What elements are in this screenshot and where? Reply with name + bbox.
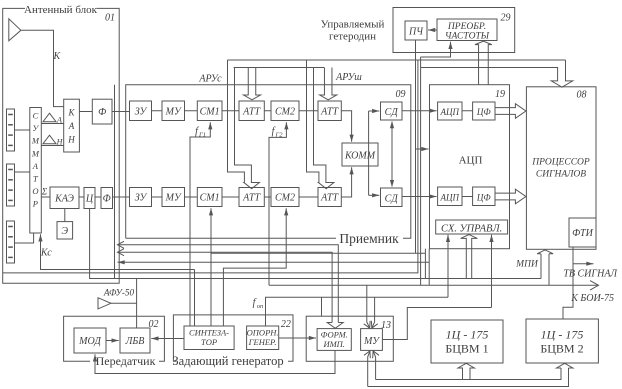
SD1 box (СД) row1 xyxy=(381,102,403,120)
svg-text:КАЭ: КАЭ xyxy=(54,194,74,205)
FORM IMP box (ФОРМ. ИМП.) xyxy=(317,329,351,351)
svg-text:СД: СД xyxy=(385,194,399,205)
svg-text:СМ1: СМ1 xyxy=(200,107,220,118)
wire ADC2-CF2 xyxy=(462,196,473,198)
SM1 box (СМ1) row1 xyxy=(197,101,222,121)
bottom data bus double line xyxy=(376,368,561,380)
svg-text:АЦП: АЦП xyxy=(440,107,460,117)
hollow arrow bus into BCVM1 xyxy=(458,363,474,379)
hollow arrow CF2 to processor xyxy=(495,189,526,204)
SM1 box (СМ1) row2 xyxy=(197,188,222,207)
svg-text:АРУс: АРУс xyxy=(198,74,222,85)
svg-text:ПЧ: ПЧ xyxy=(408,27,424,38)
MU13 box (МУ) xyxy=(361,329,383,351)
svg-text:СД: СД xyxy=(385,107,399,118)
wire KAE to C xyxy=(79,196,84,198)
antenna array element 3 xyxy=(7,221,15,263)
svg-text:Э: Э xyxy=(62,226,69,237)
wire element 3 to summator xyxy=(15,233,34,243)
ARUsh bus line L2 (АРУш segment) xyxy=(234,67,325,69)
KAN box (КАН) xyxy=(64,99,80,152)
wire FORM IMP to MOD xyxy=(95,350,335,373)
wire element 1 to summator xyxy=(15,129,30,131)
svg-text:КОММ: КОММ xyxy=(344,151,376,162)
svg-text:К: К xyxy=(68,108,76,118)
wire up into converter from stub xyxy=(421,42,451,57)
CF2 box (ЦФ) row2 xyxy=(473,187,495,206)
antenna array element 2 xyxy=(7,164,15,206)
master oscillator enclosure box 22 (Задающий генератор) xyxy=(173,315,293,361)
wire down to LBV with AFU tap xyxy=(136,279,138,329)
Ks wire down to synthesizer xyxy=(194,270,196,327)
hollow AGC elbow into ATT2 row2 xyxy=(307,60,334,189)
wire synth to LBV xyxy=(151,338,184,340)
transmitter enclosure box 02 (Передатчик) xyxy=(64,316,165,361)
wire MU1-SM1 xyxy=(185,110,198,112)
svg-text:гетеродин: гетеродин xyxy=(329,31,376,43)
filter F1 box (Ф) xyxy=(92,99,112,124)
arrow into control unit left xyxy=(447,235,449,297)
svg-text:ЗУ: ЗУ xyxy=(135,193,148,204)
hollow arrow up into converter xyxy=(475,41,492,84)
SM2 box (СМ2) row2 xyxy=(271,188,299,207)
svg-text:А: А xyxy=(32,161,39,171)
svg-text:ТВ СИГНАЛ: ТВ СИГНАЛ xyxy=(563,269,618,280)
svg-text:Г2: Г2 xyxy=(275,132,284,139)
control drop line inside antenna unit xyxy=(114,85,116,279)
svg-text:АТТ: АТТ xyxy=(320,193,339,204)
svg-text:Задающий генератор: Задающий генератор xyxy=(172,354,283,368)
hollow arrow CF1 to processor xyxy=(495,104,526,119)
svg-text:К БОИ-75: К БОИ-75 xyxy=(570,293,614,304)
svg-text:ТОР: ТОР xyxy=(201,337,217,347)
MU2 box (МУ) xyxy=(162,188,185,207)
svg-text:МОД: МОД xyxy=(78,336,101,347)
svg-text:Σ: Σ xyxy=(41,187,48,197)
signal processor box 08 (ПРОЦЕССОР СИГНАЛОВ) xyxy=(526,87,596,250)
ATT2 box (АТТ) row2 xyxy=(318,188,341,207)
svg-text:ИМП.: ИМП. xyxy=(322,339,344,349)
arrow converter to PCh xyxy=(428,29,437,31)
wire SM2-ATT2 row1 xyxy=(299,110,318,112)
wire antenna feed to KAN (К line) xyxy=(21,30,64,106)
control line A to antenna box xyxy=(3,60,418,273)
svg-text:БЦВМ 1: БЦВМ 1 xyxy=(445,342,488,356)
hollow pair bus into antenna box and FORM IMP xyxy=(118,241,125,248)
hollow AGC arrow into ATT2 row1 xyxy=(320,68,337,100)
wire ADC1-CF1 xyxy=(462,110,473,112)
wire from fop line down to unit 13 xyxy=(321,297,323,316)
arrow into MU13 top right xyxy=(372,297,375,328)
svg-text:СМ2: СМ2 xyxy=(275,193,295,204)
antenna array element 1 xyxy=(7,109,15,151)
bracket feed to SD1/SD2 xyxy=(369,110,380,112)
wire F2 to ZU2 xyxy=(113,196,130,198)
SD2 box (СД) row2 xyxy=(381,188,403,207)
MOD box (МОД) xyxy=(74,328,106,353)
wire ATT2 row1 to KOMM xyxy=(341,111,351,142)
svg-text:Ц: Ц xyxy=(85,194,94,205)
svg-text:ЦФ: ЦФ xyxy=(476,193,491,203)
summator box (СУММАТОР) xyxy=(30,108,42,234)
PCh box (ПЧ) xyxy=(405,21,427,40)
svg-text:Н: Н xyxy=(67,135,75,145)
long line K BOI-75 with arrow (К БОИ-75) xyxy=(269,284,599,286)
ADC unit box 19 xyxy=(430,85,510,249)
svg-text:А: А xyxy=(68,121,75,131)
hollow arrow into control unit xyxy=(461,235,478,279)
LBV box (ЛБВ) xyxy=(120,328,150,353)
svg-text:С: С xyxy=(33,111,39,121)
wire SM2b-ATT2b xyxy=(299,196,318,198)
KAE box (КАЭ) xyxy=(50,187,79,209)
filter F2 box (Ф) xyxy=(101,188,113,209)
svg-text:ОПОРН.: ОПОРН. xyxy=(247,328,279,338)
svg-text:АТТ: АТТ xyxy=(242,193,261,204)
hollow AGC arrow into ATT1 row1 xyxy=(244,68,261,100)
svg-text:АЦП: АЦП xyxy=(440,193,460,203)
svg-text:Ф: Ф xyxy=(103,194,111,205)
svg-text:ЧАСТОТЫ: ЧАСТОТЫ xyxy=(445,32,490,42)
box 29 enclosure xyxy=(393,8,515,53)
long line at 253.3 xyxy=(211,252,425,254)
wire sum to KAN (lower) xyxy=(41,145,63,147)
svg-text:Г1: Г1 xyxy=(198,132,206,139)
CF1 box (ЦФ) row1 xyxy=(473,102,495,120)
wire E to KAE xyxy=(64,209,66,222)
reference generator box (ОПОРН. ГЕНЕР.) xyxy=(247,326,279,350)
svg-text:Приемник: Приемник xyxy=(339,231,399,246)
wire C to filter F2 xyxy=(95,196,101,198)
FTI box (ФТИ) xyxy=(569,218,596,247)
ADC1 box (АЦП) row1 xyxy=(438,102,462,120)
svg-text:Кс: Кс xyxy=(40,248,52,259)
svg-text:ЛБВ: ЛБВ xyxy=(125,336,145,347)
svg-text:МУ: МУ xyxy=(165,193,182,204)
wire MU13 output to control unit right arrow xyxy=(382,308,491,340)
Ks feedback wire (Кс) from synthesizer to summator xyxy=(41,234,195,269)
svg-text:СМ2: СМ2 xyxy=(275,107,295,118)
control unit box (СХ. УПРАВЛ.) xyxy=(436,220,508,234)
arrows into MU13 bottom xyxy=(368,351,370,387)
control line B down to BOI line xyxy=(420,57,422,285)
ZU2 box (ЗУ) xyxy=(130,188,152,207)
antenna unit enclosure box 01 (Антенный блок) xyxy=(3,8,120,283)
svg-text:08: 08 xyxy=(577,90,587,101)
wire SD1 to ADC1 xyxy=(402,110,437,112)
BCVM1 box (1Ц - 175 БЦВМ 1) xyxy=(431,320,503,363)
ATT1 box (АТТ) row2 xyxy=(239,188,264,207)
fG1 wire to SM1 row1 (label f_Г1) xyxy=(190,122,210,326)
fG1 wire to SM1 row2 xyxy=(210,208,212,326)
hollow AGC elbow into ATT1 row2 xyxy=(228,60,260,189)
svg-text:Антенный блок: Антенный блок xyxy=(24,4,98,16)
f_op wire (fоп) to control unit xyxy=(266,297,449,326)
BCVM2 box (1Ц - 175 БЦВМ 2) xyxy=(526,319,598,363)
svg-text:ПРЕОБР.: ПРЕОБР. xyxy=(447,22,486,32)
frequency converter box (ПРЕОБР. ЧАСТОТЫ) xyxy=(437,19,497,41)
wire FTI down to BCVM2 xyxy=(563,247,573,319)
svg-text:29: 29 xyxy=(501,13,511,24)
wire MOD to LBV xyxy=(106,340,119,342)
ZU1 box (ЗУ) xyxy=(130,101,152,121)
svg-text:ФТИ: ФТИ xyxy=(572,228,593,239)
svg-text:Ф: Ф xyxy=(98,107,106,118)
svg-text:АРУш: АРУш xyxy=(335,72,362,83)
AFU-50 antenna symbol (АФУ-50) xyxy=(98,298,111,309)
arrow into MU13 top left xyxy=(367,285,370,328)
wire SM1b-ATT1b xyxy=(222,196,239,198)
wire MU2-SM1b xyxy=(185,196,198,198)
svg-text:М: М xyxy=(31,148,40,158)
wire PCh down to distribution line xyxy=(415,40,417,253)
arrow into antenna box (solid) xyxy=(118,261,430,263)
unit 13 enclosure box xyxy=(306,316,393,361)
wire SM1-ATT1 row1 xyxy=(222,110,239,112)
wire ZU2-MU2 xyxy=(152,196,163,198)
double arrow between SD boxes xyxy=(391,122,393,187)
wire KAN to filter F1 xyxy=(79,111,92,113)
svg-text:ЗУ: ЗУ xyxy=(135,107,148,118)
wire sum to KAN (upper) xyxy=(41,123,63,125)
fG2 wire to SM2 row1 (label f_Г2) xyxy=(269,122,286,285)
antenna horn (feed) symbol xyxy=(9,19,21,41)
wire F1 to ZU1 xyxy=(112,111,130,113)
arrow branch into ADC box 19 xyxy=(416,148,429,150)
wire ATT1b-SM2b xyxy=(264,196,271,198)
svg-text:1Ц - 175: 1Ц - 175 xyxy=(446,328,489,342)
MU1 box (МУ) xyxy=(162,101,185,121)
wire ATT2 row2 to KOMM xyxy=(341,167,351,197)
long line C-output to MPI riser xyxy=(90,209,541,279)
fG2 wire to SM2 row2 xyxy=(223,208,286,326)
svg-text:Управляемый: Управляемый xyxy=(321,19,385,31)
svg-text:АЦП: АЦП xyxy=(459,155,483,167)
svg-text:О: О xyxy=(32,186,38,196)
svg-text:01: 01 xyxy=(105,13,115,24)
wire SD2 to ADC2 xyxy=(402,196,437,198)
svg-text:АТТ: АТТ xyxy=(320,107,339,118)
svg-text:СИГНАЛОВ: СИГНАЛОВ xyxy=(536,170,586,180)
delta-N output symbol xyxy=(43,135,56,144)
svg-text:ПРОЦЕССОР: ПРОЦЕССОР xyxy=(531,158,590,168)
ARUs bus top line L1 xyxy=(228,59,566,61)
svg-text:Р: Р xyxy=(32,199,38,209)
svg-text:СИНТЕЗА-: СИНТЕЗА- xyxy=(189,328,229,338)
MPI bus (МПИ) from ADC to processor xyxy=(424,249,426,279)
svg-text:ГЕНЕР.: ГЕНЕР. xyxy=(248,337,277,347)
SM2 box (СМ2) row1 xyxy=(271,101,299,121)
svg-text:09: 09 xyxy=(396,89,406,100)
svg-text:МУ: МУ xyxy=(363,336,380,347)
ATT1 box (АТТ) row1 xyxy=(239,101,264,121)
svg-text:СМ1: СМ1 xyxy=(200,193,220,204)
svg-text:Передатчик: Передатчик xyxy=(96,354,156,368)
svg-text:ЦФ: ЦФ xyxy=(476,107,491,117)
ADC2 box (АЦП) row2 xyxy=(438,187,462,206)
hollow arrow from bus down into processor box 08 xyxy=(421,60,573,87)
svg-text:БЦВМ 2: БЦВМ 2 xyxy=(540,342,583,356)
KOMM box (КОММ) xyxy=(342,143,378,166)
svg-text:МПИ: МПИ xyxy=(515,260,539,270)
svg-text:МУ: МУ xyxy=(165,107,182,118)
delta-A output symbol xyxy=(43,113,56,122)
ATT2 box (АТТ) row1 xyxy=(318,101,341,121)
svg-text:АТТ: АТТ xyxy=(242,107,261,118)
svg-text:оп: оп xyxy=(257,303,264,310)
wire ATT1-SM2 row1 xyxy=(264,110,271,112)
svg-text:АФУ-50: АФУ-50 xyxy=(103,287,135,297)
svg-text:19: 19 xyxy=(495,89,505,100)
synthesizer box (СИНТЕЗАТОР) xyxy=(184,326,234,350)
C box (Ц) xyxy=(84,188,95,209)
hollow arrow bus into BCVM2 (bus end) xyxy=(557,363,573,368)
svg-text:М: М xyxy=(31,136,40,146)
svg-text:22: 22 xyxy=(281,319,291,330)
sigma output wire (Σ) xyxy=(41,196,50,198)
wire ref gen to form imp xyxy=(279,337,316,339)
wire ZU1-MU1 xyxy=(152,110,163,112)
svg-text:ФОРМ.: ФОРМ. xyxy=(321,330,348,340)
svg-text:СХ. УПРАВЛ.: СХ. УПРАВЛ. xyxy=(441,223,502,234)
TV signal output wire (ТВ СИГНАЛ) xyxy=(573,263,594,265)
svg-text:1Ц - 175: 1Ц - 175 xyxy=(541,328,584,342)
E box (Э) xyxy=(57,222,73,239)
wire element 2 to summator xyxy=(15,171,30,173)
receiver enclosure box 09 (Приемник) xyxy=(126,85,411,239)
